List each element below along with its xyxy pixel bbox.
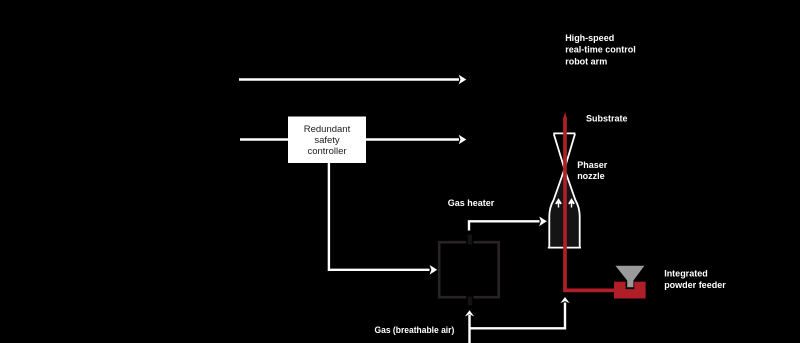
svg-text:robot arm: robot arm <box>565 56 607 66</box>
powder feeder: red body <box>614 266 646 299</box>
wire: gas supply line up into heater <box>465 310 474 343</box>
nozzle: dark interior fill <box>549 169 580 247</box>
label: Integrated powder feeder <box>664 269 726 291</box>
svg-text:Integrated: Integrated <box>664 269 708 279</box>
wire: gas supply branch to nozzle base <box>470 297 570 328</box>
powder feeder: gray funnel <box>615 266 644 288</box>
svg-text:Redundant: Redundant <box>304 124 351 135</box>
svg-text:controller: controller <box>307 146 346 157</box>
box: Redundant safety controller <box>288 117 366 164</box>
svg-text:Gas heater: Gas heater <box>448 198 495 208</box>
svg-text:real-time control: real-time control <box>565 45 636 55</box>
wire: controller to gas heater <box>329 163 437 275</box>
wire: gas heater to nozzle arrow <box>469 217 547 231</box>
nozzle bottom edge <box>548 247 581 249</box>
label: High-speed real-time control robot arm <box>565 33 636 66</box>
svg-text:High-speed: High-speed <box>565 33 614 43</box>
label: Phaser nozzle <box>577 160 608 181</box>
svg-text:Gas (breathable air): Gas (breathable air) <box>375 325 455 335</box>
nozzle top edge <box>553 132 575 134</box>
svg-text:nozzle: nozzle <box>577 171 605 181</box>
wire: into safety controller <box>240 138 288 140</box>
nozzle right-top to left bell wall <box>549 134 575 248</box>
nozzle: phaser nozzle outline <box>548 133 581 247</box>
svg-text:Phaser: Phaser <box>577 160 608 170</box>
svg-text:safety: safety <box>314 135 340 146</box>
svg-text:Substrate: Substrate <box>586 114 628 124</box>
box: gas heater <box>439 235 499 306</box>
svg-text:powder feeder: powder feeder <box>664 280 726 290</box>
flow arrows inside nozzle <box>556 200 574 208</box>
red spray line through nozzle <box>563 112 614 291</box>
wire: top control signal arrow <box>239 75 466 85</box>
wire: out of safety controller arrow <box>366 135 466 145</box>
nozzle left-top to right bell wall <box>554 134 580 248</box>
